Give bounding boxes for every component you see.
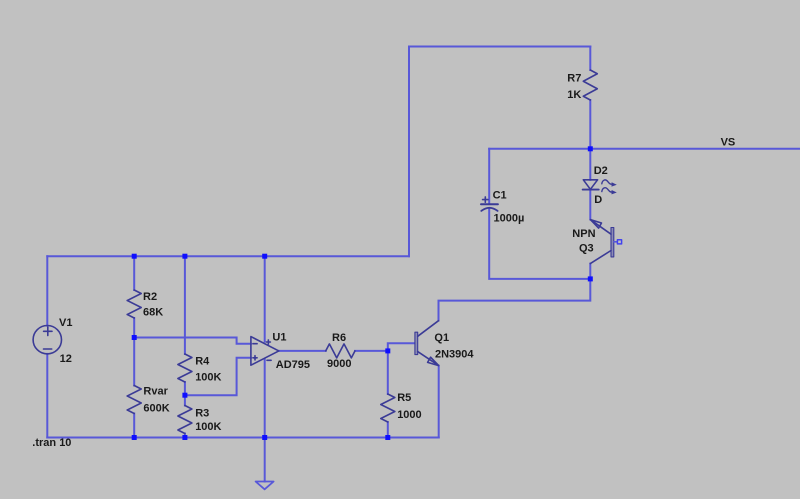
resistor R7 (583, 70, 597, 100)
junction (134,256) (132, 254, 137, 259)
svg-text:1000µ: 1000µ (494, 213, 525, 225)
wire VS rail to D2 anode (589, 149, 591, 180)
svg-text:D: D (594, 194, 602, 206)
op-amp U1 triangle (251, 337, 279, 366)
svg-text:2N3904: 2N3904 (435, 349, 474, 361)
transistor Q1 base bar (415, 332, 418, 354)
junction (590,279) (588, 276, 593, 281)
svg-text:C1: C1 (493, 190, 507, 202)
ground symbol (256, 482, 274, 490)
junction (185,437.5) (182, 435, 187, 440)
voltage source V1 (33, 326, 61, 354)
svg-text:1000: 1000 (397, 409, 421, 421)
capacitor C1 plus mark (483, 199, 488, 201)
transistor Q1 emitter diagonal (418, 352, 439, 366)
svg-text:.tran 10: .tran 10 (32, 437, 71, 449)
resistor Rvar (127, 386, 141, 414)
junction (265,437.5) (262, 435, 267, 440)
wire R3 bottom lead (184, 434, 186, 438)
wire Q1 collector to node(590,279) (439, 279, 591, 321)
wire R5 top lead (387, 351, 389, 394)
svg-text:100K: 100K (195, 372, 221, 384)
svg-text:AD795: AD795 (276, 359, 310, 371)
junction (134,337.5) (132, 335, 137, 340)
svg-text:1K: 1K (567, 89, 581, 101)
capacitor C1 bottom curved plate (481, 208, 497, 211)
junction (590,148.8) (588, 146, 593, 151)
op-amp non-inverting input mark (253, 357, 257, 359)
wire Rvar bottom lead (133, 414, 135, 438)
wire ground stem (264, 438, 266, 482)
svg-text:R2: R2 (143, 291, 157, 303)
junction (388,351) (385, 348, 390, 353)
wire R4 top lead from mid rail (184, 256, 186, 354)
svg-text:Q1: Q1 (434, 332, 449, 344)
resistor R4 (178, 354, 192, 382)
svg-text:R3: R3 (195, 407, 209, 419)
wire R7 bottom lead to VS rail (589, 100, 591, 149)
svg-text:R4: R4 (195, 356, 210, 368)
svg-text:100K: 100K (195, 421, 221, 433)
wire vertical (409,46.5)-(409,256) (408, 47, 410, 257)
svg-text:V1: V1 (59, 317, 72, 329)
wire R5 bottom lead (387, 422, 389, 438)
svg-text:R7: R7 (567, 73, 581, 85)
resistor R5 (381, 394, 395, 422)
svg-text:600K: 600K (143, 403, 169, 415)
wire Q1 emitter down to bottom rail (438, 366, 440, 438)
wire opamp V- supply (264, 359, 266, 438)
wire opamp V+ supply (264, 256, 266, 341)
wire R3 top lead (184, 395, 186, 405)
wire VS rail (489,148.8)-(800,148.8) (489, 148, 800, 150)
wire D2 cathode to Q3 emitter (589, 190, 591, 219)
wire node(185,395) to opamp non-inverting input (185, 358, 251, 395)
svg-text:R6: R6 (332, 332, 346, 344)
op-amp V+ mark (266, 341, 270, 343)
svg-text:R5: R5 (397, 392, 411, 404)
transistor Q1 collector diagonal (418, 321, 439, 337)
wire node(388,351) to Q1 base (388, 343, 415, 351)
wire V1 bottom (47,353.9)-(47,437.5) (46, 354, 48, 438)
transistor Q1 emitter arrow (428, 357, 439, 365)
op-amp V- mark (267, 359, 271, 361)
wire bottom rail (47,437.5)-(438.7,437.5) (47, 437, 438, 439)
svg-text:U1: U1 (272, 331, 286, 343)
transistor Q3 base bar (611, 228, 614, 257)
svg-text:Q3: Q3 (579, 243, 594, 255)
wire Rvar top lead (133, 338, 135, 386)
wire R6 to node(388,351) (355, 350, 388, 352)
wire R2 bottom lead (133, 318, 135, 338)
op-amp inverting input mark (253, 343, 257, 345)
transistor Q3 emitter diagonal (591, 220, 612, 235)
D2 light emission arrow 1 (602, 180, 612, 184)
transistor Q3 collector diagonal (590, 251, 611, 264)
svg-text:12: 12 (60, 353, 72, 365)
junction (134,437.5) (132, 435, 137, 440)
wire node(134,337.5) to opamp inverting input (134, 338, 251, 344)
wire C1 bottom lead to node(590,279) (489, 209, 590, 279)
wire R2 top lead (133, 256, 135, 290)
junction (265,256) (262, 254, 267, 259)
resistor R2 (127, 290, 141, 318)
wire top rail (409,46.5)-(590,46.5) (409, 46, 590, 48)
wire mid rail (47,256)-(409,256) (47, 255, 409, 257)
transistor Q3 emitter arrow (591, 220, 602, 228)
resistor R6 (326, 344, 355, 358)
svg-text:68K: 68K (143, 307, 163, 319)
resistor R3 (178, 406, 192, 434)
transistor Q3 open base pin square (617, 240, 621, 244)
svg-text:Rvar: Rvar (143, 386, 168, 398)
wire C1 top lead and corner (488, 149, 490, 204)
wire R4 bottom lead (184, 382, 186, 395)
junction (388,437.5) (385, 435, 390, 440)
svg-text:9000: 9000 (327, 358, 351, 370)
wire R7 top lead from top rail (589, 47, 591, 71)
capacitor C1 top plate (481, 203, 498, 205)
wire V1 top (47,256)-(47,325.6) (46, 256, 48, 325)
svg-text:VS: VS (721, 137, 736, 149)
diode D2 (LED) (583, 180, 597, 190)
wire Q3 collector to node(590,279) (589, 264, 591, 279)
svg-text:D2: D2 (594, 165, 608, 177)
transistor Q3 base pin stub (614, 241, 618, 243)
D2 light emission arrow 2 (602, 188, 612, 192)
junction (185,256) (182, 254, 187, 259)
svg-text:NPN: NPN (572, 228, 595, 240)
wire opamp output to R6 (279, 350, 326, 352)
junction (185,395) (182, 393, 187, 398)
